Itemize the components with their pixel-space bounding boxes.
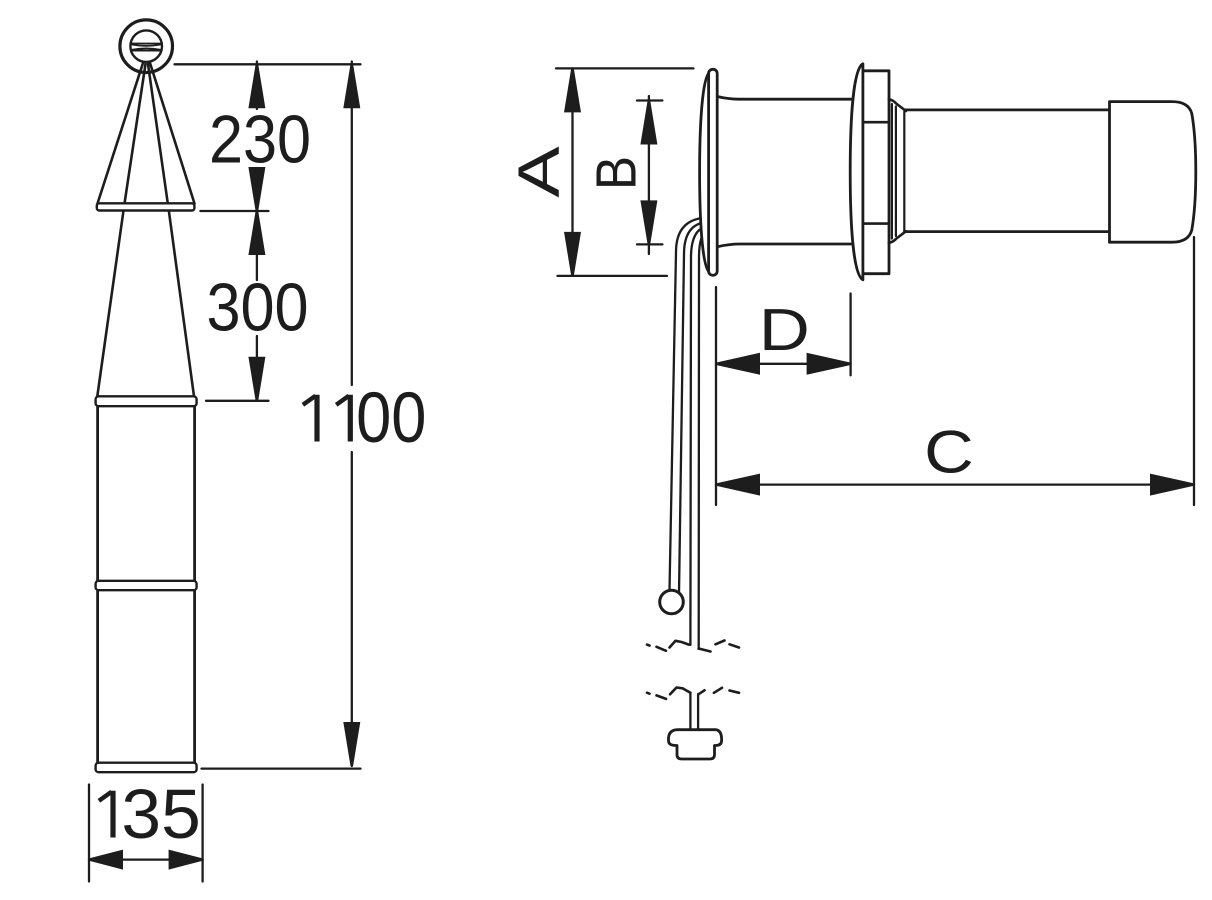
cylinder left side bbox=[96, 406, 99, 763]
svg-text:D: D bbox=[759, 296, 810, 362]
dim line D bbox=[716, 363, 851, 365]
break 2 bbox=[647, 688, 739, 699]
ext line 135 left bbox=[88, 785, 90, 882]
pull ball bbox=[660, 590, 684, 614]
cable 4 bbox=[699, 231, 707, 649]
arrow 300 up bbox=[248, 211, 265, 255]
label 1100 digit 1a bbox=[314, 395, 319, 442]
cable 2 bbox=[679, 222, 707, 594]
svg-text:300: 300 bbox=[206, 269, 308, 346]
ext line D/C left bbox=[715, 287, 717, 505]
cylinder right side bbox=[193, 406, 196, 763]
dim line 300 bbox=[256, 336, 258, 401]
dim line A bbox=[571, 68, 573, 276]
arrow 1100 up bbox=[343, 64, 360, 108]
band bottom bbox=[96, 763, 197, 773]
dim line 1100 bbox=[351, 62, 353, 386]
ext line A bottom bbox=[558, 275, 668, 277]
arrow A up bbox=[564, 68, 581, 112]
cone inner-left line bbox=[125, 64, 146, 204]
body top line bbox=[717, 97, 851, 100]
dim line B bbox=[648, 96, 650, 254]
cable 1 bbox=[670, 218, 708, 591]
cable below break 2 left line bbox=[689, 693, 691, 729]
end cap bbox=[1110, 102, 1196, 243]
collar contour line 3 bbox=[903, 112, 905, 232]
arrow D right bbox=[807, 353, 851, 375]
taper right side bbox=[169, 211, 194, 397]
tick at 211 bbox=[201, 210, 269, 212]
cable below break 2 right line bbox=[697, 694, 699, 728]
ext line D right bbox=[849, 294, 851, 376]
arrow C right bbox=[1150, 474, 1194, 496]
end plug bbox=[669, 730, 722, 759]
svg-text:00: 00 bbox=[356, 379, 426, 458]
rear cylinder bottom line bbox=[905, 230, 1111, 233]
svg-text:230: 230 bbox=[209, 101, 311, 178]
body bottom line bbox=[717, 244, 851, 247]
arrow B up bbox=[640, 101, 657, 145]
arrow B down bbox=[640, 200, 657, 244]
finial inner circle bbox=[130, 30, 162, 62]
arrow 135 left bbox=[89, 850, 123, 870]
nut body bbox=[863, 71, 889, 274]
cone inner-right line bbox=[148, 64, 168, 204]
finial slot lower chord bbox=[131, 50, 162, 52]
cone outer-right line bbox=[150, 63, 195, 204]
finial slot pinch upper bbox=[132, 45, 161, 46]
arrow 135 right bbox=[169, 850, 203, 870]
rear cylinder top line bbox=[905, 109, 1111, 112]
ext line A top bbox=[556, 67, 694, 69]
ext line 135 right bbox=[201, 785, 203, 882]
nut hex line upper bbox=[863, 121, 889, 124]
tick at 401 bbox=[206, 400, 269, 402]
dim line 135 bbox=[89, 858, 203, 860]
collar contour line 2 bbox=[895, 107, 897, 237]
taper left side bbox=[97, 211, 123, 397]
collar top edge bbox=[889, 99, 906, 111]
tick B top bbox=[637, 99, 662, 101]
finial slot pinch lower bbox=[132, 48, 161, 49]
arrow 230 down bbox=[248, 167, 265, 211]
arrow C left bbox=[716, 474, 760, 496]
svg-text:35: 35 bbox=[121, 775, 200, 853]
arrow A down bbox=[564, 232, 581, 276]
cone outer-left line bbox=[98, 63, 144, 204]
finial slot upper chord bbox=[131, 43, 162, 45]
arrow D left bbox=[716, 353, 760, 375]
cable 3 bbox=[690, 227, 707, 646]
arrow 1100 down bbox=[343, 722, 360, 766]
arrow 300 down bbox=[248, 357, 265, 401]
svg-text:C: C bbox=[924, 417, 974, 485]
arrow 230 up bbox=[248, 64, 265, 108]
label 1100 digit 1b bbox=[348, 395, 353, 442]
collar bottom edge bbox=[889, 231, 906, 243]
extension line bottom bbox=[202, 767, 361, 769]
flange face arc bbox=[700, 73, 710, 273]
band middle bbox=[96, 581, 197, 590]
finial outer circle bbox=[120, 20, 173, 73]
band top bbox=[96, 396, 197, 406]
extension line top bbox=[175, 63, 361, 65]
svg-text:A: A bbox=[506, 146, 571, 198]
ext line C right bbox=[1193, 237, 1195, 505]
flange blade bbox=[709, 69, 718, 275]
label 135 digit 1 bbox=[110, 791, 115, 838]
nut hex line lower bbox=[863, 222, 889, 225]
collar plate bbox=[97, 203, 195, 210]
dim line C bbox=[716, 483, 1194, 485]
dim line 230 bbox=[256, 62, 258, 110]
break 1 bbox=[647, 641, 739, 652]
collar contour line 1 bbox=[891, 104, 893, 239]
washer lens bbox=[850, 64, 863, 280]
svg-text:B: B bbox=[585, 156, 648, 190]
tick B bottom bbox=[637, 243, 662, 245]
